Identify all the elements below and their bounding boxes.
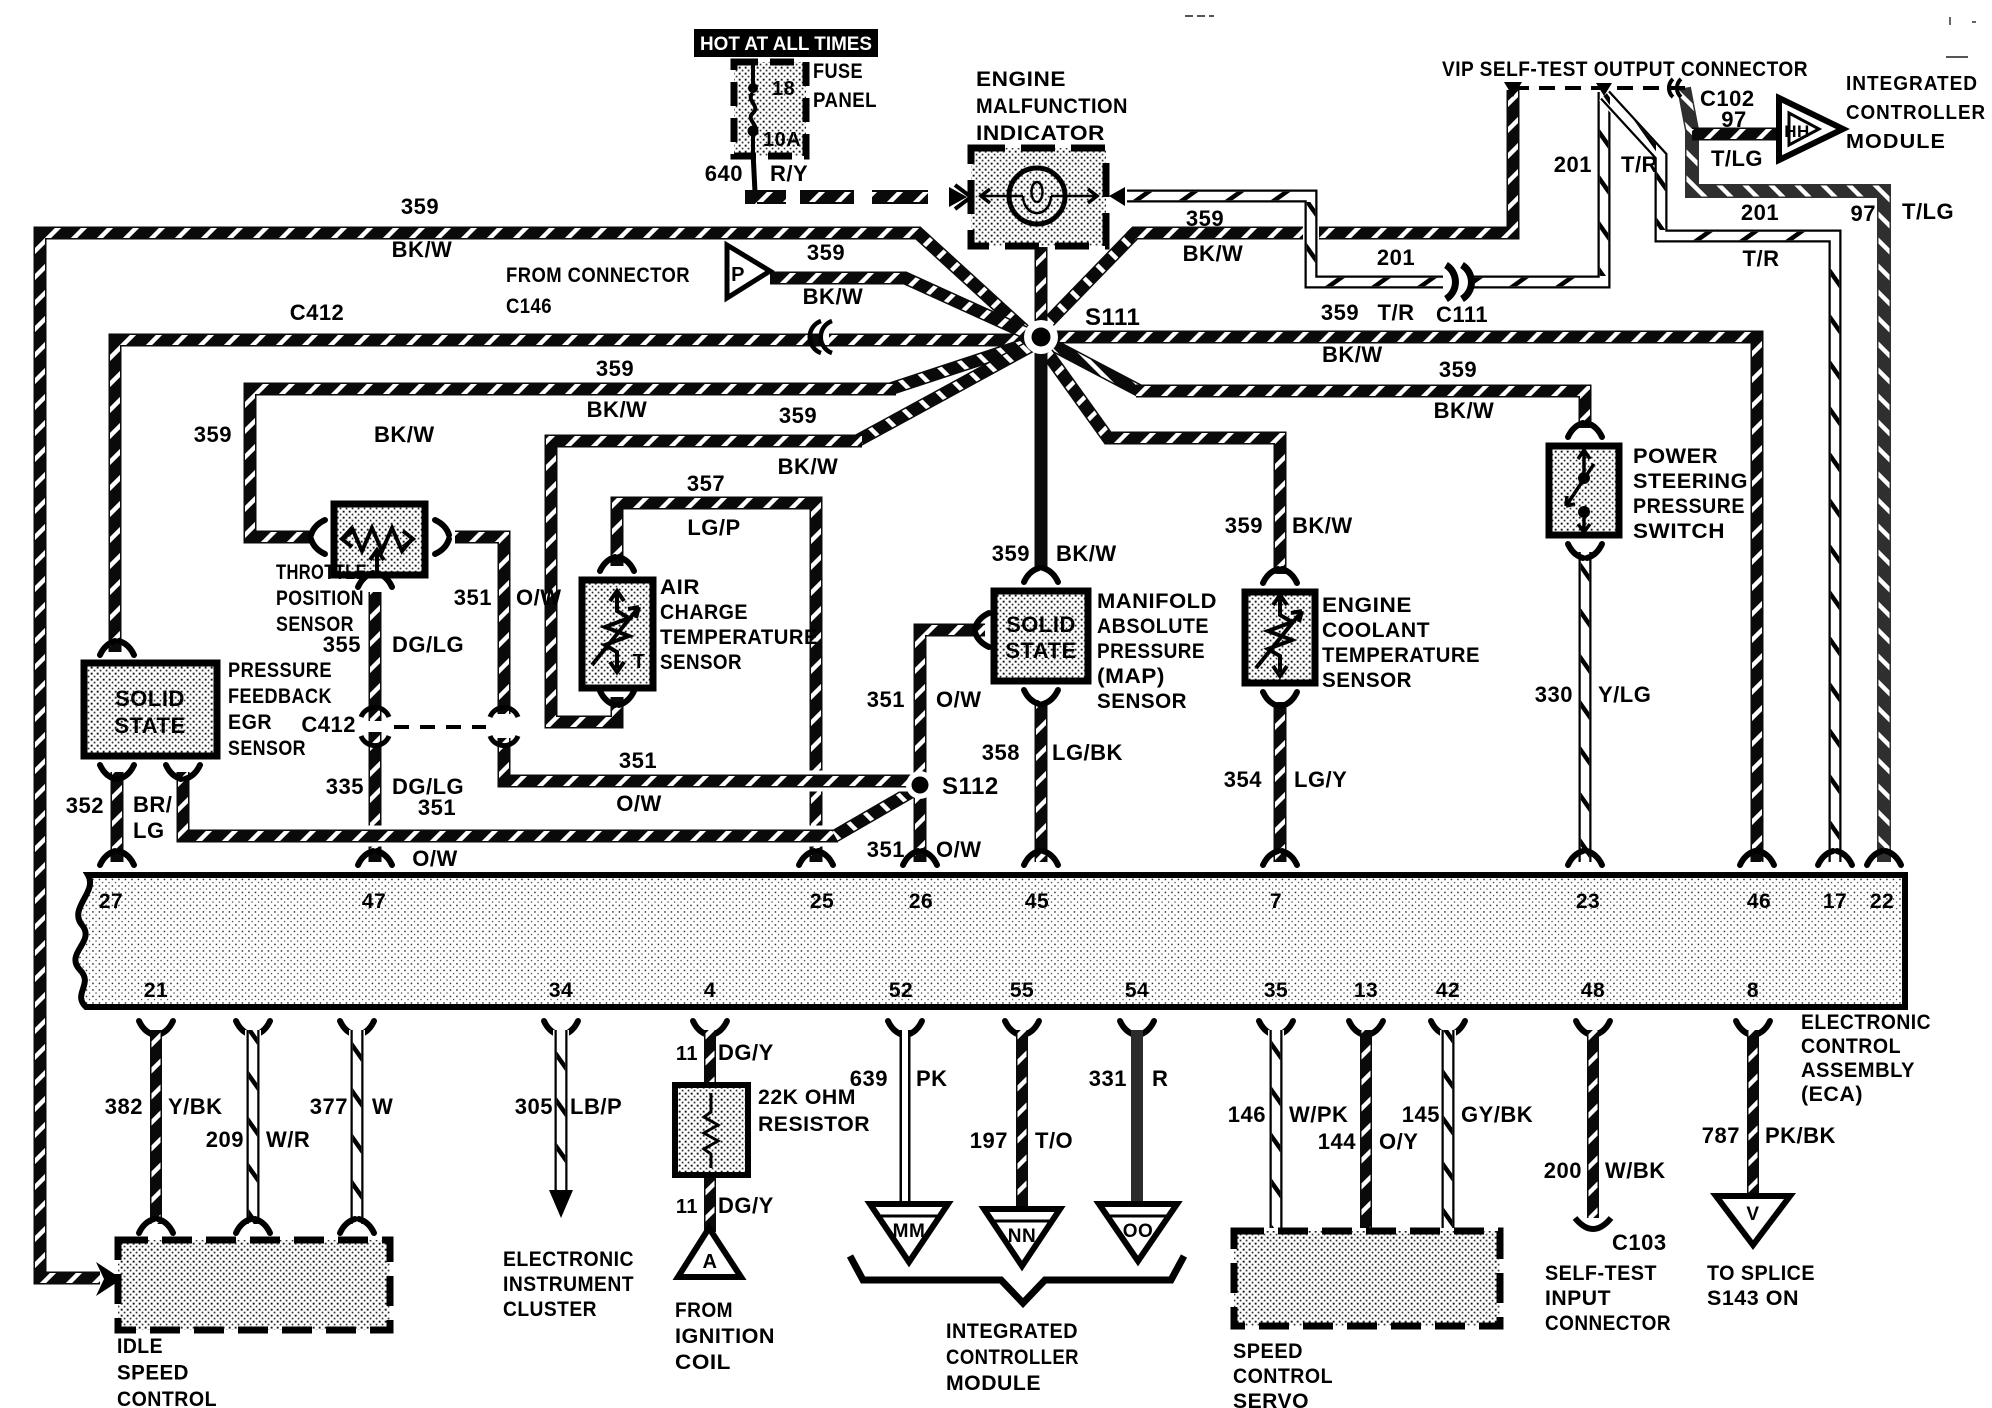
svg-text:ELECTRONIC: ELECTRONIC <box>1801 1011 1931 1034</box>
svg-text:97: 97 <box>1851 201 1876 226</box>
labels 335 DG/LG <box>326 774 464 799</box>
svg-text:52: 52 <box>889 979 913 1002</box>
svg-text:VIP SELF-TEST OUTPUT CONNECTOR: VIP SELF-TEST OUTPUT CONNECTOR <box>1442 58 1808 81</box>
svg-text:47: 47 <box>362 890 386 913</box>
svg-text:SOLID: SOLID <box>1006 612 1076 637</box>
svg-text:359: 359 <box>1186 206 1224 231</box>
svg-text:MM: MM <box>893 1221 926 1242</box>
svg-text:ASSEMBLY: ASSEMBLY <box>1801 1059 1915 1082</box>
wire 354 LG/Y coolant sensor to ECA pin 7 <box>1274 702 1287 862</box>
svg-text:352: 352 <box>66 793 104 818</box>
svg-text:S112: S112 <box>942 773 999 800</box>
svg-text:45: 45 <box>1025 890 1049 913</box>
labels 351 O/W S112 up <box>867 687 982 712</box>
svg-text:377: 377 <box>310 1094 348 1119</box>
svg-text:NN: NN <box>1008 1226 1036 1247</box>
wire 382 Y/BK ECA pin 21 to idle speed control <box>139 1021 173 1233</box>
svg-text:C146: C146 <box>506 295 552 318</box>
labels 359 BK/W power steering line <box>1434 357 1495 423</box>
labels 11 DG/Y lower <box>676 1193 774 1218</box>
svg-text:SENSOR: SENSOR <box>1097 690 1187 713</box>
svg-text:PK/BK: PK/BK <box>1765 1123 1836 1148</box>
svg-text:W: W <box>372 1094 393 1119</box>
label SELF-TEST INPUT CONNECTOR <box>1545 1262 1671 1335</box>
svg-text:CONTROL: CONTROL <box>1801 1035 1901 1058</box>
svg-text:CONTROLLER: CONTROLLER <box>946 1346 1079 1369</box>
chevron right of indicator <box>1109 187 1125 206</box>
svg-text:GY/BK: GY/BK <box>1461 1102 1533 1127</box>
svg-text:359: 359 <box>779 403 817 428</box>
svg-text:HOT AT ALL TIMES: HOT AT ALL TIMES <box>700 34 872 55</box>
svg-text:BK/W: BK/W <box>392 237 453 262</box>
svg-text:35: 35 <box>1264 979 1288 1002</box>
labels 144 O/Y <box>1318 1129 1419 1154</box>
triangle HH to integrated controller module <box>1779 98 1843 160</box>
svg-text:CONNECTOR: CONNECTOR <box>1545 1312 1671 1335</box>
svg-text:11: 11 <box>676 1196 698 1218</box>
wire 357 LG/P air charge sensor to ECA pin 25 <box>617 503 816 862</box>
labels 639 PK <box>850 1066 948 1091</box>
svg-text:S143 ON: S143 ON <box>1707 1287 1799 1310</box>
svg-text:42: 42 <box>1436 979 1460 1002</box>
splice S111 <box>1024 320 1058 354</box>
svg-text:201: 201 <box>1741 200 1779 225</box>
svg-text:354: 354 <box>1224 767 1262 792</box>
label C103 <box>1612 1230 1667 1255</box>
label ENGINE MALFUNCTION INDICATOR <box>976 68 1128 145</box>
engine malfunction indicator box <box>971 148 1106 246</box>
label TO SPLICE S143 ON <box>1707 1262 1815 1310</box>
svg-text:POWER: POWER <box>1633 445 1718 468</box>
svg-text:34: 34 <box>549 979 573 1002</box>
wire 201 T/R VIP connector to ECA pin 17 <box>1605 95 1835 862</box>
svg-text:27: 27 <box>99 890 123 913</box>
label FUSE PANEL <box>813 60 877 112</box>
svg-text:S111: S111 <box>1085 304 1140 331</box>
svg-text:SENSOR: SENSOR <box>228 737 306 760</box>
svg-text:DG/Y: DG/Y <box>718 1040 774 1065</box>
svg-text:18: 18 <box>772 78 795 100</box>
svg-text:359: 359 <box>807 240 845 265</box>
svg-text:Y/BK: Y/BK <box>168 1094 223 1119</box>
labels 359 BK/W left vertical <box>194 422 435 447</box>
labels 359 BK/W coolant drop <box>1225 513 1353 538</box>
idle box left connector chevron <box>96 1262 122 1296</box>
svg-text:CONTROL: CONTROL <box>1233 1365 1333 1388</box>
svg-text:48: 48 <box>1581 979 1605 1002</box>
coolant thermistor symbol <box>1256 595 1302 676</box>
labels 359 BK/W top-left line <box>392 194 453 262</box>
svg-text:V: V <box>1746 1204 1759 1225</box>
svg-text:T/LG: T/LG <box>1711 146 1763 171</box>
labels 354 LG/Y <box>1224 767 1348 792</box>
wire 351 O/W EGR sensor / line to S112 <box>183 772 918 836</box>
svg-text:11: 11 <box>676 1043 698 1065</box>
EGR connector brackets <box>100 641 200 779</box>
svg-text:4: 4 <box>704 979 716 1002</box>
svg-text:RESISTOR: RESISTOR <box>758 1113 870 1136</box>
svg-text:787: 787 <box>1702 1123 1740 1148</box>
wire 351 O/W splice S112 to ECA pin 26 <box>914 790 927 862</box>
MAP sensor box (solid state) <box>994 591 1088 681</box>
wire 359 BK/W to air charge temperature sensor <box>551 345 1033 722</box>
svg-text:146: 146 <box>1228 1102 1266 1127</box>
svg-text:LG: LG <box>133 818 165 843</box>
svg-text:PRESSURE: PRESSURE <box>228 659 332 682</box>
svg-text:INSTRUMENT: INSTRUMENT <box>503 1273 634 1296</box>
labels 352 BR/LG <box>66 792 173 843</box>
label S111 <box>1085 304 1140 331</box>
wire 639 PK ECA pin 52 to MM <box>888 1021 922 1204</box>
svg-text:INPUT: INPUT <box>1545 1287 1611 1310</box>
labels 359 BK/W line4 <box>778 403 839 479</box>
wire 351 O/W splice S112 to MAP sensor <box>920 630 985 784</box>
svg-text:W/BK: W/BK <box>1605 1158 1666 1183</box>
triangle P from connector C146 <box>727 245 770 298</box>
svg-text:INDICATOR: INDICATOR <box>976 122 1105 145</box>
wire 305 LB/P ECA pin 34 to instrument cluster (arrow) <box>544 1021 578 1218</box>
svg-text:SWITCH: SWITCH <box>1633 520 1725 543</box>
label FROM IGNITION COIL <box>675 1299 775 1374</box>
svg-text:Y/LG: Y/LG <box>1598 682 1651 707</box>
svg-text:BK/W: BK/W <box>1322 342 1383 367</box>
fuse 10A symbol <box>748 64 759 155</box>
svg-text:T/R: T/R <box>1621 152 1658 177</box>
labels 200 W/BK <box>1544 1158 1666 1183</box>
labels 359 BK/W MAP drop <box>992 541 1117 566</box>
splice S112 <box>906 771 934 799</box>
svg-text:O/Y: O/Y <box>1379 1129 1418 1154</box>
label IDLE SPEED CONTROL <box>117 1335 217 1408</box>
svg-text:HH: HH <box>1784 122 1810 141</box>
labels 11 DG/Y upper <box>676 1040 774 1065</box>
wire 352 BR/LG EGR sensor to ECA pin 27 <box>111 772 124 862</box>
svg-text:22: 22 <box>1870 890 1894 913</box>
svg-text:POSITION: POSITION <box>276 587 364 610</box>
wire 377 W third idle wire <box>340 1021 374 1233</box>
svg-text:STATE: STATE <box>114 713 185 738</box>
label POWER STEERING PRESSURE SWITCH <box>1633 445 1748 543</box>
svg-text:CLUSTER: CLUSTER <box>503 1298 597 1321</box>
svg-text:FUSE: FUSE <box>813 60 863 83</box>
svg-text:197: 197 <box>970 1128 1008 1153</box>
labels 640 R/Y <box>705 161 808 186</box>
wire 355/335 DG/LG throttle position sensor to ECA pin 47 <box>369 592 382 862</box>
svg-text:SPEED: SPEED <box>117 1362 189 1385</box>
svg-text:ENGINE: ENGINE <box>976 68 1066 91</box>
svg-text:201: 201 <box>1554 152 1592 177</box>
svg-text:INTEGRATED: INTEGRATED <box>946 1320 1078 1343</box>
svg-text:W/PK: W/PK <box>1289 1102 1348 1127</box>
svg-text:359: 359 <box>992 541 1030 566</box>
triangle NN <box>984 1209 1060 1266</box>
wire 330 Y/LG power steering switch to ECA pin 23 <box>1577 552 1593 862</box>
svg-text:ABSOLUTE: ABSOLUTE <box>1097 615 1209 638</box>
svg-text:LG/Y: LG/Y <box>1294 767 1347 792</box>
svg-text:STATE: STATE <box>1005 638 1076 663</box>
svg-text:305: 305 <box>515 1094 553 1119</box>
labels 351 O/W line2 <box>412 795 458 871</box>
labels 330 Y/LG <box>1535 682 1652 707</box>
TPS potentiometer symbol <box>342 528 413 571</box>
wire 201/359 T/R indicator to C111 to VIP connector <box>1127 92 1604 282</box>
connector C102 <box>1669 79 1755 111</box>
wire 359 BK/W from S111 to VIP self-test output connector <box>1037 90 1513 334</box>
svg-text:MALFUNCTION: MALFUNCTION <box>976 95 1128 118</box>
svg-text:BK/W: BK/W <box>1183 241 1244 266</box>
TPS connector brackets <box>311 520 449 587</box>
svg-text:R/Y: R/Y <box>770 161 808 186</box>
ECA pin numbers bottom row <box>144 979 1759 1002</box>
svg-text:13: 13 <box>1354 979 1378 1002</box>
svg-text:(ECA): (ECA) <box>1801 1083 1863 1106</box>
switch symbol <box>1566 450 1594 532</box>
power steering connector brackets <box>1568 423 1602 558</box>
svg-text:T/LG: T/LG <box>1902 199 1954 224</box>
air charge temperature sensor box <box>582 580 653 688</box>
svg-text:O/W: O/W <box>936 837 982 862</box>
wire 97 T/LG branch to HH triangle <box>1692 128 1779 141</box>
pressure feedback EGR sensor box (solid state) <box>84 663 217 756</box>
labels 359 BK/W indicator wire <box>1183 206 1244 266</box>
labels 357 LG/P <box>687 471 741 540</box>
ECA top pin connector brackets <box>100 851 1901 865</box>
svg-text:BK/W: BK/W <box>778 454 839 479</box>
svg-text:FROM CONNECTOR: FROM CONNECTOR <box>506 264 690 287</box>
labels 145 GY/BK <box>1402 1102 1533 1127</box>
wire 359 BK/W to throttle position sensor <box>250 342 1033 537</box>
svg-text:330: 330 <box>1535 682 1573 707</box>
svg-text:351: 351 <box>867 837 905 862</box>
ECA electronic control assembly box <box>75 875 1905 1007</box>
svg-text:T: T <box>633 651 646 673</box>
label VIP SELF-TEST OUTPUT CONNECTOR <box>1442 58 1808 81</box>
svg-text:BK/W: BK/W <box>1292 513 1353 538</box>
triangle A from ignition coil <box>678 1228 741 1277</box>
svg-text:335: 335 <box>326 774 364 799</box>
svg-text:DG/Y: DG/Y <box>718 1193 774 1218</box>
svg-text:SPEED: SPEED <box>1233 1340 1303 1363</box>
svg-text:145: 145 <box>1402 1102 1440 1127</box>
throttle position sensor box <box>334 504 425 575</box>
svg-text:IGNITION: IGNITION <box>675 1325 775 1348</box>
labels 377 W <box>310 1094 393 1119</box>
svg-text:97: 97 <box>1721 107 1746 132</box>
wire 359 BK/W C412 line to EGR sensor <box>115 340 1033 652</box>
svg-text:C412: C412 <box>290 300 345 325</box>
label SPEED CONTROL SERVO <box>1233 1340 1333 1408</box>
svg-text:MANIFOLD: MANIFOLD <box>1097 590 1217 613</box>
svg-text:21: 21 <box>144 979 168 1002</box>
triangle OO <box>1099 1204 1177 1261</box>
labels 355 DG/LG <box>323 632 464 657</box>
speed control servo box <box>1234 1231 1500 1326</box>
svg-text:T/O: T/O <box>1035 1128 1073 1153</box>
wire 144 O/Y ECA pin 13 to speed control servo <box>1349 1021 1383 1228</box>
wire 197 T/O ECA pin 55 to NN <box>1005 1021 1039 1212</box>
labels 359 BK/W line3 <box>587 356 648 422</box>
svg-text:MODULE: MODULE <box>1846 131 1946 153</box>
svg-text:209: 209 <box>206 1127 244 1152</box>
MAP connector brackets <box>975 568 1058 704</box>
svg-text:359: 359 <box>596 356 634 381</box>
svg-text:359: 359 <box>1225 513 1263 538</box>
label 22K OHM RESISTOR <box>758 1086 870 1136</box>
label ELECTRONIC CONTROL ASSEMBLY (ECA) <box>1801 1011 1931 1106</box>
svg-text:22K OHM: 22K OHM <box>758 1086 856 1109</box>
svg-text:25: 25 <box>810 890 834 913</box>
svg-text:DG/LG: DG/LG <box>392 632 464 657</box>
label INTEGRATED CONTROLLER MODULE (bottom) <box>946 1320 1079 1395</box>
svg-text:COIL: COIL <box>675 1351 731 1374</box>
svg-text:BK/W: BK/W <box>1434 398 1495 423</box>
svg-text:17: 17 <box>1823 890 1847 913</box>
air charge thermistor symbol <box>592 591 645 673</box>
svg-text:CONTROL: CONTROL <box>117 1388 217 1408</box>
svg-text:23: 23 <box>1576 890 1600 913</box>
svg-text:THROTTLE: THROTTLE <box>276 561 367 584</box>
triangle V to splice S143 <box>1716 1196 1790 1245</box>
power steering pressure switch box <box>1549 446 1619 535</box>
label C412 on main line <box>290 300 345 325</box>
svg-text:54: 54 <box>1125 979 1149 1002</box>
label ENGINE COOLANT TEMPERATURE SENSOR <box>1322 594 1480 692</box>
svg-text:SOLID: SOLID <box>115 686 185 711</box>
svg-text:CHARGE: CHARGE <box>660 601 748 624</box>
wire 359 BK/W from S111 to engine coolant temperature sensor <box>1040 343 1280 574</box>
labels 359 BK/W on C146 wire <box>803 240 864 309</box>
svg-text:T/R: T/R <box>1378 300 1415 325</box>
svg-text:BK/W: BK/W <box>803 284 864 309</box>
svg-text:PRESSURE: PRESSURE <box>1633 495 1745 518</box>
svg-text:SERVO: SERVO <box>1233 1390 1309 1408</box>
svg-text:55: 55 <box>1010 979 1034 1002</box>
svg-text:C412: C412 <box>301 712 356 737</box>
svg-text:BK/W: BK/W <box>374 422 435 447</box>
indicator lamp <box>980 168 1097 224</box>
labels 209 W/R <box>206 1127 310 1152</box>
wire 145 GY/BK ECA pin 42 to speed control servo <box>1431 1021 1465 1228</box>
engine coolant temperature sensor box <box>1245 592 1315 683</box>
svg-text:FEEDBACK: FEEDBACK <box>228 685 332 708</box>
wire 146 W/PK ECA pin 35 to speed control servo <box>1259 1021 1293 1228</box>
svg-text:351: 351 <box>867 687 905 712</box>
fuse panel box <box>734 62 806 156</box>
svg-text:BK/W: BK/W <box>1056 541 1117 566</box>
svg-text:351: 351 <box>418 795 456 820</box>
svg-text:O/W: O/W <box>516 585 562 610</box>
svg-text:PRESSURE: PRESSURE <box>1097 640 1205 663</box>
svg-text:C111: C111 <box>1436 302 1488 327</box>
connector chevrons into indicator <box>949 185 971 209</box>
labels 146 W/PK <box>1228 1102 1349 1127</box>
svg-text:640: 640 <box>705 161 743 186</box>
label PRESSURE FEEDBACK EGR SENSOR <box>228 659 332 760</box>
wire 359 BK/W from S111 to ECA pin 46 <box>1045 337 1757 862</box>
wire 200 W/BK ECA pin 48 to C103 <box>1576 1021 1610 1218</box>
labels 201 T/R at VIP drop <box>1554 152 1658 177</box>
labels 305 LB/P <box>515 1094 622 1119</box>
svg-text:144: 144 <box>1318 1129 1356 1154</box>
svg-text:8: 8 <box>1747 979 1759 1002</box>
svg-text:46: 46 <box>1747 890 1771 913</box>
label AIR CHARGE TEMPERATURE SENSOR <box>660 576 818 674</box>
svg-text:359: 359 <box>1439 357 1477 382</box>
svg-text:359: 359 <box>194 422 232 447</box>
fuse labels 18 / 10A <box>763 78 801 151</box>
svg-text:PK: PK <box>916 1066 948 1091</box>
labels 201 / 359 T/R at C111 wire <box>1377 245 1415 325</box>
labels 358 LG/BK <box>982 740 1123 765</box>
svg-text:MODULE: MODULE <box>946 1372 1041 1395</box>
svg-text:O/W: O/W <box>936 687 982 712</box>
svg-text:639: 639 <box>850 1066 888 1091</box>
wire 351 O/W throttle position sensor to splice S112 <box>455 537 915 781</box>
coolant connector brackets <box>1263 569 1297 706</box>
svg-text:359: 359 <box>401 194 439 219</box>
wire 209 W/R ECA pin 34... second idle wire <box>236 1021 270 1233</box>
HOT AT ALL TIMES banner <box>694 29 878 57</box>
svg-text:(MAP): (MAP) <box>1097 665 1165 688</box>
labels 201 T/R at pin17 wire <box>1741 200 1780 271</box>
idle speed control box <box>118 1240 390 1330</box>
ECA pin numbers top row <box>99 890 1894 913</box>
svg-text:BK/W: BK/W <box>587 397 648 422</box>
wire 11 DG/Y ECA pin 4 to 22K resistor and ignition coil <box>693 1021 727 1232</box>
label MANIFOLD ABSOLUTE PRESSURE (MAP) SENSOR <box>1097 590 1217 713</box>
svg-text:T/R: T/R <box>1743 246 1780 271</box>
svg-text:AIR: AIR <box>660 576 700 599</box>
svg-text:7: 7 <box>1270 890 1282 913</box>
connector C412 arch pair + dashed link <box>301 707 518 745</box>
svg-text:BR/: BR/ <box>133 792 172 817</box>
svg-text:26: 26 <box>909 890 933 913</box>
svg-text:CONTROLLER: CONTROLLER <box>1846 102 1986 124</box>
svg-text:LB/P: LB/P <box>570 1094 622 1119</box>
wire 359 BK/W from S111 to power steering pressure switch <box>1043 340 1585 428</box>
labels 331 R <box>1089 1066 1169 1091</box>
svg-text:FROM: FROM <box>675 1299 733 1322</box>
labels 351 O/W S112 down <box>867 837 982 862</box>
labels 197 T/O <box>970 1128 1073 1153</box>
svg-text:TEMPERATURE: TEMPERATURE <box>660 626 818 649</box>
wire 358 LG/BK MAP sensor to ECA pin 45 <box>1035 700 1048 862</box>
svg-text:357: 357 <box>687 471 725 496</box>
label ELECTRONIC INSTRUMENT CLUSTER <box>503 1248 634 1321</box>
label INTEGRATED CONTROLLER MODULE (top right) <box>1846 73 1986 153</box>
label FROM CONNECTOR C146 <box>506 264 690 318</box>
VIP self-test output connector dashed line <box>1504 82 1688 97</box>
connector C412 arcs on main line <box>810 321 832 353</box>
svg-text:A: A <box>703 1251 718 1273</box>
wire 787 PK/BK ECA pin 8 to splice S143 (V) <box>1736 1021 1770 1196</box>
stray printing marks <box>1185 16 1976 57</box>
svg-text:C103: C103 <box>1612 1230 1667 1255</box>
svg-text:PANEL: PANEL <box>813 89 877 112</box>
svg-text:TO SPLICE: TO SPLICE <box>1707 1262 1815 1285</box>
svg-text:ENGINE: ENGINE <box>1322 594 1412 617</box>
labels 97 T/LG at pin22 wire <box>1851 199 1955 226</box>
svg-text:351: 351 <box>454 585 492 610</box>
svg-text:O/W: O/W <box>412 846 458 871</box>
svg-text:SENSOR: SENSOR <box>1322 669 1412 692</box>
labels 351 O/W line1 <box>616 748 662 816</box>
svg-text:359: 359 <box>1321 300 1359 325</box>
brace integrated controller module <box>850 1256 1184 1303</box>
svg-text:INTEGRATED: INTEGRATED <box>1846 73 1978 95</box>
svg-text:COOLANT: COOLANT <box>1322 619 1430 642</box>
labels 382 Y/BK <box>105 1094 223 1119</box>
